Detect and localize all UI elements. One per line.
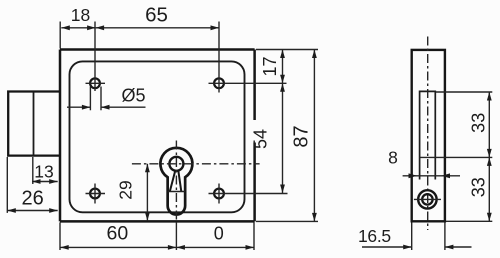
- cover plate inner rounded rectangle: [70, 61, 245, 212]
- svg-text:33: 33: [469, 177, 489, 197]
- bolt (left protrusion): [8, 92, 60, 156]
- svg-text:16.5: 16.5: [358, 226, 391, 246]
- keyhole centerline horizontal: [132, 163, 260, 165]
- extension line middle (for 33/33): [420, 156, 493, 158]
- dimension line 33 upper (vertical): [488, 92, 490, 157]
- dimension line 29 (vertical): [146, 164, 148, 221]
- hole bottom-right crosshair / extension to 54 dimension: [209, 184, 288, 204]
- svg-text:8: 8: [388, 148, 398, 168]
- svg-text:65: 65: [145, 4, 168, 27]
- keyhole centerline vertical: [175, 141, 177, 223]
- extension lines 13 / 26: [7, 157, 33, 213]
- side view case outline: [412, 50, 445, 221]
- keyhole escutcheon outline: [160, 148, 192, 215]
- keyhole inner circle: [169, 157, 183, 171]
- side view screw hole inner: [422, 194, 432, 204]
- svg-text:0: 0: [214, 224, 224, 244]
- dimension line 33 lower (vertical): [488, 157, 490, 221]
- svg-text:60: 60: [107, 223, 129, 245]
- bolt throw divider line: [33, 92, 35, 156]
- svg-text:18: 18: [71, 5, 90, 25]
- mounting hole bottom-right: [214, 189, 224, 199]
- dimension line 26: [7, 210, 57, 212]
- dimension line 17 (vertical): [282, 50, 284, 84]
- hole top-left crosshair: [86, 82, 106, 84]
- extension lines 16.5: [412, 222, 445, 250]
- hole bottom-left crosshair: [86, 184, 106, 204]
- side view centerline: [427, 37, 429, 231]
- svg-text:29: 29: [116, 180, 136, 199]
- side view screw hole outer: [418, 190, 436, 208]
- dimension line 18: [61, 27, 95, 29]
- dimension line 8: [403, 175, 460, 177]
- extension line slot top (for 33): [436, 91, 492, 93]
- dimension line 0: [176, 246, 254, 248]
- keyhole slot funnel: [170, 171, 182, 192]
- diameter 5 tangent extension lines: [90, 87, 101, 111]
- dimension line 54 (vertical): [282, 83, 284, 193]
- mounting hole top-left: [90, 78, 100, 88]
- keyhole slot bottom line across stem: [168, 191, 186, 193]
- svg-text:Ø5: Ø5: [121, 86, 145, 106]
- svg-text:17: 17: [260, 56, 280, 76]
- bottom extension line to right dimensions: [256, 220, 318, 222]
- svg-text:33: 33: [469, 113, 489, 133]
- dimension line 16.5: [362, 246, 472, 248]
- extension line bottom (for 33): [446, 220, 492, 222]
- svg-text:13: 13: [34, 161, 53, 181]
- top extension line to right dimensions: [256, 49, 318, 51]
- dimension line 65: [96, 27, 219, 29]
- dimension 18 extension lines (plate edge + hole1 axis): [60, 22, 95, 92]
- dimension line 87 (vertical): [313, 50, 315, 222]
- svg-text:87: 87: [291, 125, 313, 147]
- dimension line diameter 5: [67, 106, 146, 108]
- mounting hole top-right: [214, 78, 224, 88]
- dimension line 13: [32, 181, 58, 183]
- svg-text:54: 54: [251, 129, 271, 149]
- lock plate outline (front view): [60, 50, 255, 222]
- screw hole crosshair: [414, 198, 441, 200]
- bottom dimension extension lines: [60, 222, 254, 250]
- side view inner slot: [420, 91, 436, 179]
- svg-text:26: 26: [21, 187, 43, 209]
- hole top-right crosshair / extension to 17-54 dimension: [209, 22, 287, 93]
- dimension line 60: [60, 246, 176, 248]
- mounting hole bottom-left: [90, 189, 100, 199]
